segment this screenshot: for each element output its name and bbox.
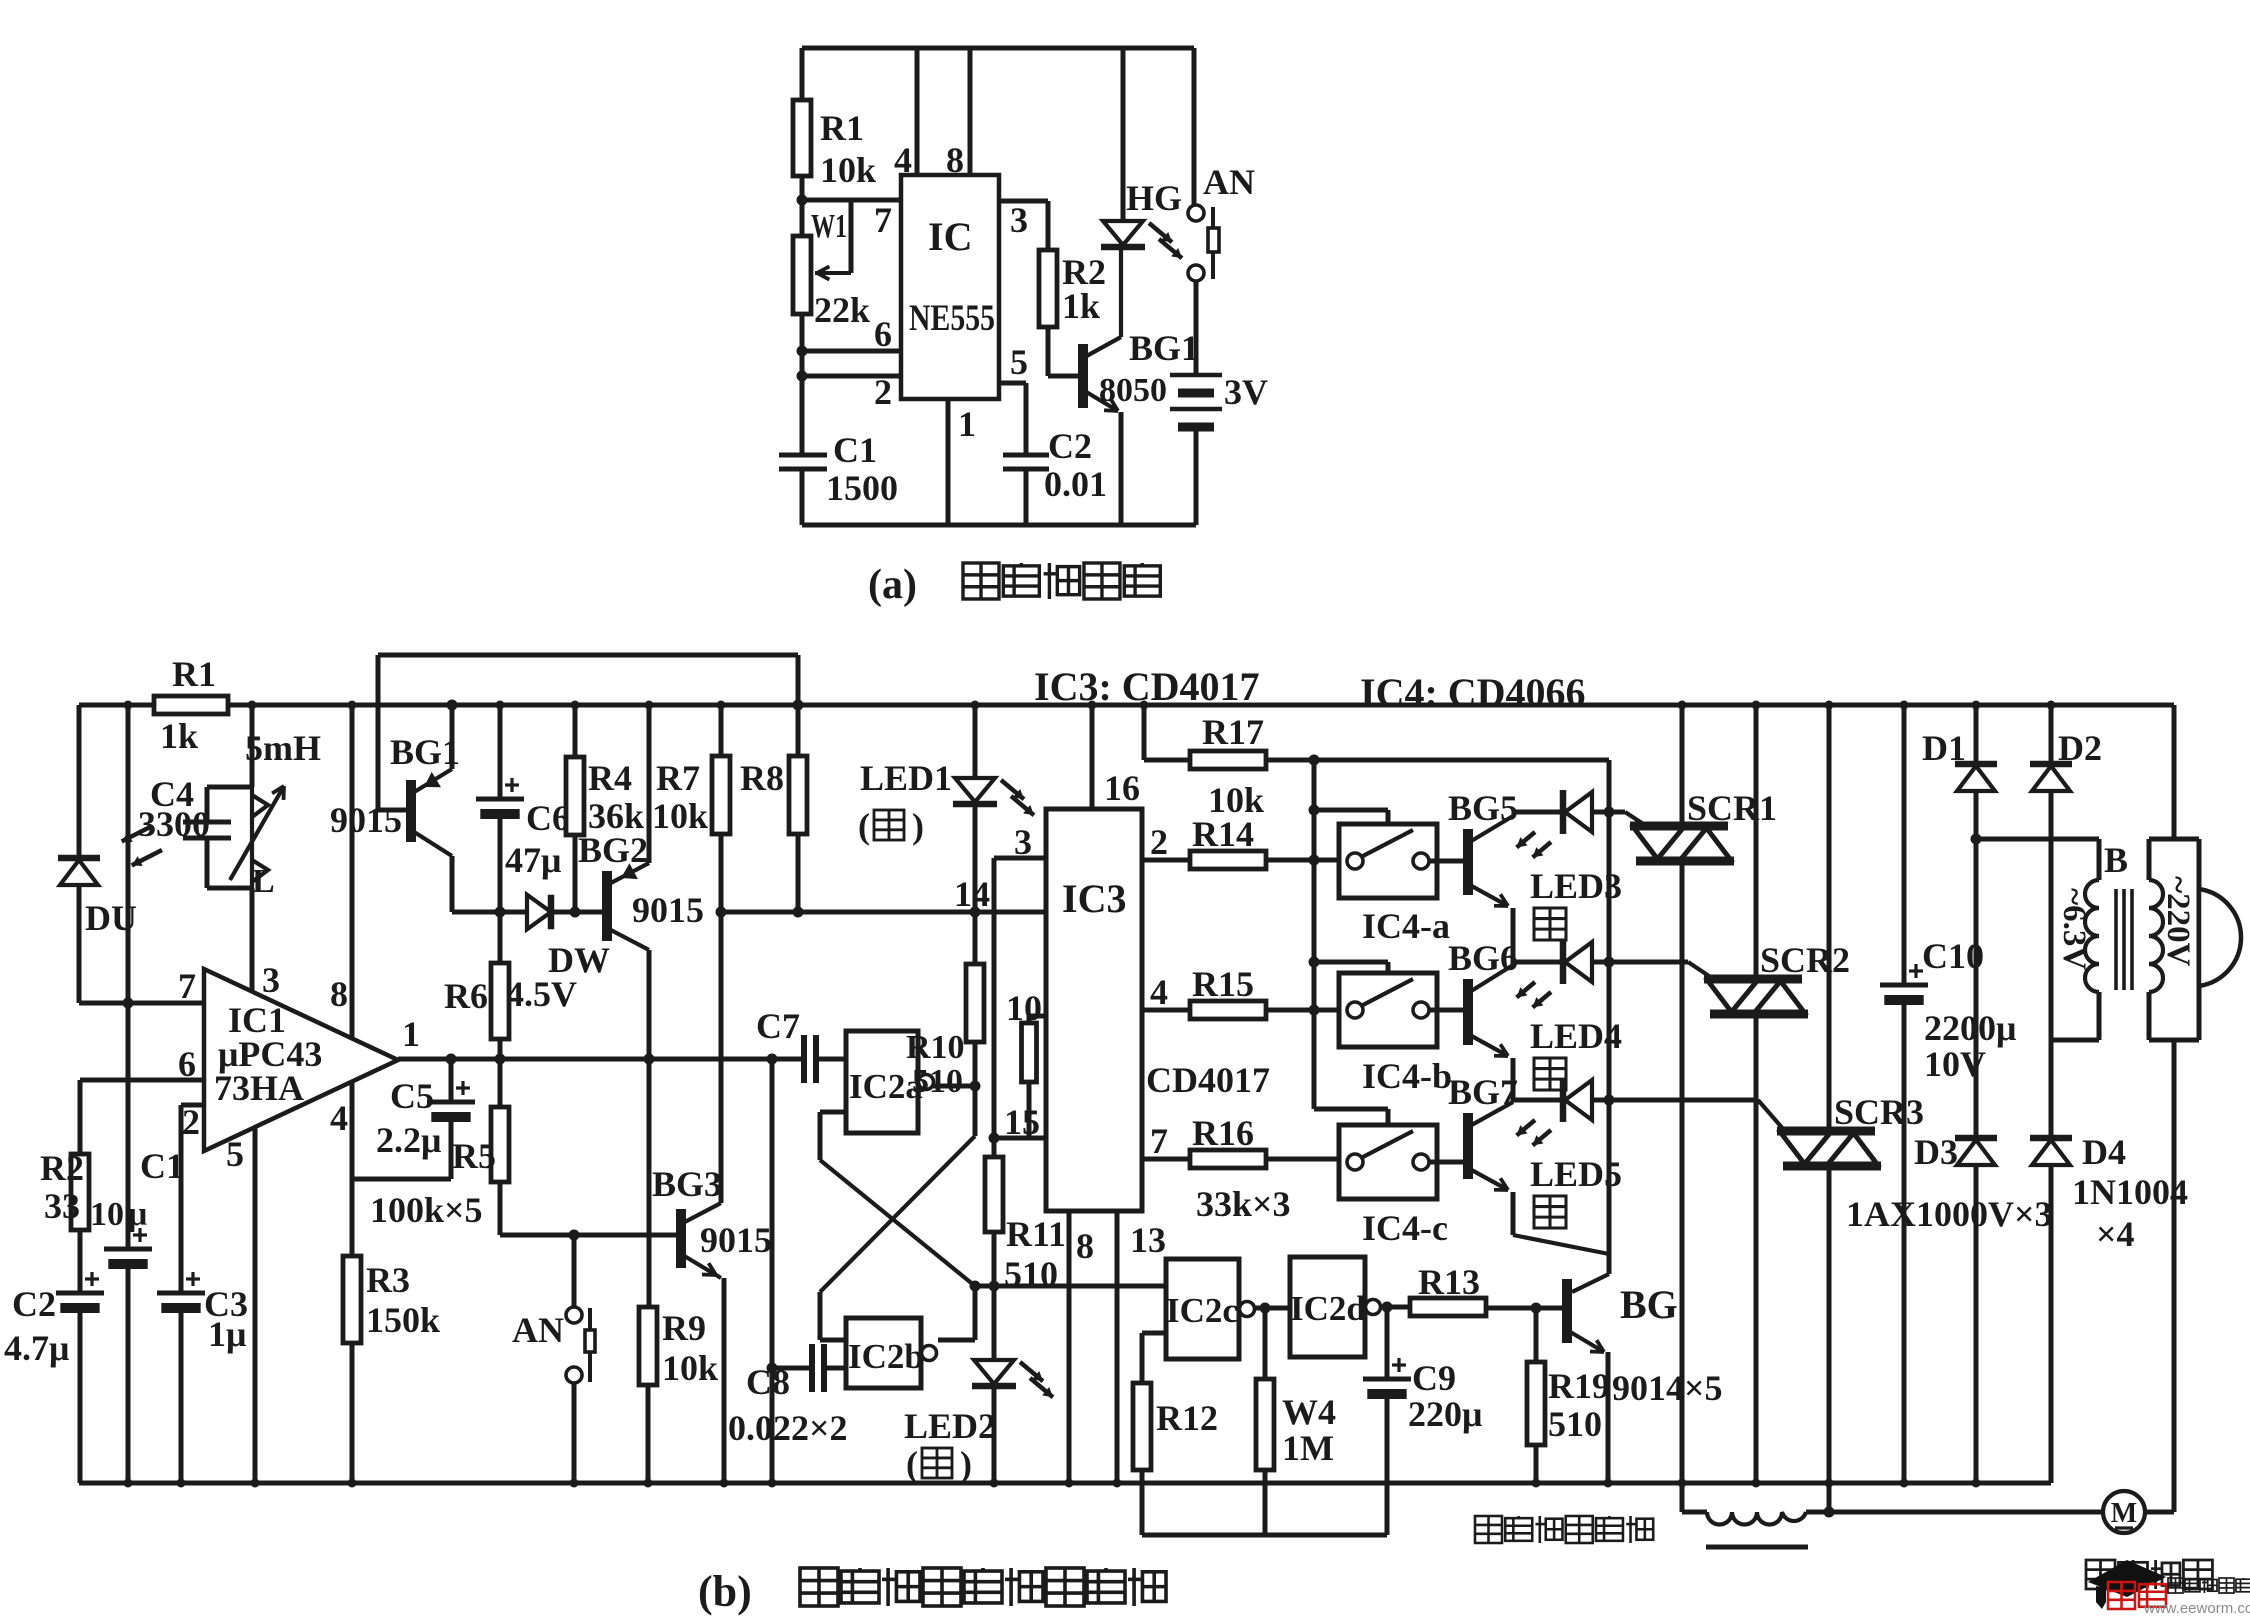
wire R14 to IC4a <box>1266 858 1339 863</box>
node junction top rail x=649 <box>645 701 654 710</box>
svg-text:AN: AN <box>512 1310 564 1350</box>
svg-text:C8: C8 <box>746 1362 790 1402</box>
transistor BG 9014 <box>1607 1256 1612 1274</box>
svg-text:7: 7 <box>874 200 892 240</box>
wire C1 to bottom rail <box>126 1264 131 1483</box>
capacitor C1 10u (b) <box>104 1247 152 1252</box>
svg-text:33: 33 <box>44 1186 80 1226</box>
wire pin14 row <box>721 910 1046 915</box>
svg-text:1AX1000V×3: 1AX1000V×3 <box>1846 1194 2053 1234</box>
wire C1 column (b) <box>126 705 131 1249</box>
svg-text:IC2d: IC2d <box>1290 1289 1366 1328</box>
node junction bottom rail x=994 <box>990 1479 999 1488</box>
wire sub rail <box>1142 1533 1387 1538</box>
resistor R10 510 <box>973 912 978 964</box>
inductor fan coil <box>1707 1512 1806 1525</box>
svg-text:NE555: NE555 <box>909 298 995 339</box>
transistor BG5 <box>1463 829 1473 895</box>
LED1 yellow <box>973 705 978 778</box>
svg-text:4.5V: 4.5V <box>506 974 577 1014</box>
node pin2 row (a) <box>802 374 901 379</box>
wire D2 down <box>2049 791 2054 1138</box>
transformer winding 6.3V <box>2097 839 2102 880</box>
capacitor C10 2200u <box>1902 705 1907 985</box>
resistor R14 <box>1190 851 1266 869</box>
wire IC2a out down <box>973 1086 978 1136</box>
wire R6 to node1 <box>498 1039 503 1059</box>
svg-text:IC3: IC3 <box>1062 876 1126 921</box>
svg-text:8: 8 <box>946 140 964 180</box>
node junction top rail x=575 <box>571 701 580 710</box>
svg-text:AN: AN <box>1203 162 1255 202</box>
node junction bottom rail x=1829 <box>1825 1479 1834 1488</box>
resistor R5 100k <box>498 1059 503 1107</box>
svg-text:(: ( <box>858 806 870 846</box>
wire feedback box right <box>796 655 801 756</box>
svg-text:4: 4 <box>894 140 912 180</box>
svg-text:1N1004: 1N1004 <box>2072 1172 2188 1212</box>
svg-text:R8: R8 <box>740 758 784 798</box>
wire R5 bottom row <box>498 1182 503 1235</box>
diode D1 <box>1974 705 1979 764</box>
svg-text:IC2c: IC2c <box>1166 1291 1238 1330</box>
wire pin5 column <box>253 1127 258 1483</box>
wire IC4b out <box>1429 1008 1464 1013</box>
wire pin8 column (b) <box>350 705 355 1040</box>
inductor L 5mH <box>250 787 254 888</box>
svg-text:10k: 10k <box>820 150 876 190</box>
svg-text:~6.3V: ~6.3V <box>2056 888 2092 970</box>
wire coil row <box>1682 1510 1707 1515</box>
node pin6 row (a) <box>802 349 901 354</box>
wire pin6 row (b) <box>80 1078 204 1083</box>
wire IC2a lower input <box>820 1110 846 1115</box>
node junction bottom rail x=1756 <box>1752 1479 1761 1488</box>
battery 3V <box>1194 281 1199 375</box>
svg-text:R2: R2 <box>40 1148 84 1188</box>
wire BG7 emitter down <box>1511 1192 1516 1235</box>
transistor BG1 8050 <box>1078 344 1088 408</box>
node junction bottom rail x=1536 <box>1532 1479 1541 1488</box>
svg-text:BG7: BG7 <box>1448 1072 1518 1112</box>
wire motor right <box>2145 1510 2174 1515</box>
svg-text:510: 510 <box>912 1063 963 1100</box>
wire bus feed c <box>1314 1107 1388 1112</box>
wire coil to motor <box>1806 1510 2103 1515</box>
wire pin8 (a) <box>968 48 973 175</box>
node junction bottom rail x=1904 <box>1900 1479 1909 1488</box>
wire left edge (a) <box>800 48 805 100</box>
transistor BG1 9015 (b) <box>378 808 407 813</box>
svg-text:2200μ: 2200μ <box>1924 1008 2016 1048</box>
wire IC2b out <box>938 1338 975 1343</box>
arrow DU receive 2 <box>132 850 162 865</box>
wire switch bus <box>1312 760 1317 1109</box>
svg-text:13: 13 <box>1130 1220 1166 1260</box>
node junction top rail x=1904 <box>1900 701 1909 710</box>
triac SCR3 <box>1827 705 1832 1129</box>
wire BG7 coll row <box>1513 1098 1563 1103</box>
wire BG1 collector row <box>452 910 500 915</box>
svg-text:IC4: CD4066: IC4: CD4066 <box>1360 670 1586 715</box>
wire C2 to rail <box>78 1308 83 1483</box>
svg-text:R6: R6 <box>444 976 488 1016</box>
wire 220V down <box>2172 1040 2177 1512</box>
label fan coil caption <box>1475 1516 1502 1543</box>
transistor BG6 <box>1463 979 1473 1045</box>
svg-text:D4: D4 <box>2082 1132 2126 1172</box>
svg-text:R19: R19 <box>1548 1366 1610 1406</box>
potentiometer W4 1M <box>1263 1308 1268 1379</box>
wire gate bus <box>1607 760 1612 1256</box>
svg-text:3: 3 <box>262 960 280 1000</box>
resistor R2 33 (b) <box>71 1154 89 1230</box>
motor M <box>2103 1491 2145 1533</box>
svg-text:IC4-a: IC4-a <box>1362 906 1450 946</box>
svg-text:4: 4 <box>330 1098 348 1138</box>
node junction bottom rail x=772 <box>768 1479 777 1488</box>
svg-text:9015: 9015 <box>700 1220 772 1260</box>
svg-text:0.022×2: 0.022×2 <box>728 1408 848 1448</box>
svg-text:R10: R10 <box>906 1029 965 1066</box>
svg-text:10k: 10k <box>662 1348 718 1388</box>
wire LED3 to SCR1 gate <box>1592 810 1625 815</box>
node junction bottom rail x=1117 <box>1113 1479 1122 1488</box>
wire R17 drop <box>1142 705 1147 760</box>
svg-text:1M: 1M <box>1282 1428 1334 1468</box>
wire bottom rail (b) <box>79 1481 2051 1486</box>
node junction bottom rail x=128 <box>124 1479 133 1488</box>
svg-text:C6: C6 <box>526 798 570 838</box>
wire pin8 IC3 <box>1067 1211 1072 1483</box>
svg-text:R5: R5 <box>452 1136 496 1176</box>
node junction top rail x=975 <box>971 701 980 710</box>
wire BG6 coll row <box>1513 960 1563 965</box>
svg-text:3300: 3300 <box>138 804 210 844</box>
wire BG5 emitter chain <box>1511 908 1516 965</box>
capacitor C9 220u <box>1385 1307 1390 1379</box>
logo cap <box>2088 1560 2166 1597</box>
wire R4 to base row <box>573 835 578 912</box>
diode D3 <box>1955 1135 1997 1142</box>
diode D2 <box>2049 705 2054 764</box>
svg-text:2: 2 <box>874 372 892 412</box>
svg-text:6: 6 <box>874 314 892 354</box>
node junction top rail x=1756 <box>1752 701 1761 710</box>
wire pin13 IC3 <box>1115 1211 1120 1483</box>
svg-text:5: 5 <box>226 1134 244 1174</box>
wire pin1 (a) <box>946 399 951 525</box>
svg-text:73HA: 73HA <box>214 1068 304 1108</box>
svg-text:1k: 1k <box>160 716 198 756</box>
svg-text:HG: HG <box>1126 178 1182 218</box>
wire IC2a out <box>933 1084 975 1089</box>
node junction bottom rail x=1976 <box>1972 1479 1981 1488</box>
svg-text:R16: R16 <box>1192 1113 1254 1153</box>
wire pin3 column (b) <box>250 888 255 996</box>
svg-text:1500: 1500 <box>826 468 898 508</box>
svg-text:R4: R4 <box>588 758 632 798</box>
svg-text:1: 1 <box>402 1014 420 1054</box>
capacitor C2 4.7u (b) <box>56 1291 104 1296</box>
svg-text:(: ( <box>906 1444 918 1484</box>
wire tank top row <box>207 785 252 790</box>
svg-text:8: 8 <box>1076 1226 1094 1266</box>
node junction top rail x=1976 <box>1972 701 1981 710</box>
node junction bottom rail x=1069 <box>1065 1479 1074 1488</box>
resistor R7 10k <box>719 705 724 756</box>
svg-text:BG5: BG5 <box>1448 788 1518 828</box>
node junction top rail x=1682 <box>1678 701 1687 710</box>
resistor R2 (a) <box>1046 201 1051 250</box>
svg-text:510: 510 <box>1548 1404 1602 1444</box>
resistor R19 510 <box>1485 1306 1565 1311</box>
analog switch IC4-c <box>1339 1125 1437 1199</box>
svg-text:22k: 22k <box>814 290 870 330</box>
wire pin4 column (b) <box>350 1082 355 1483</box>
transistor BG3 9015 <box>676 1209 686 1268</box>
svg-text:16: 16 <box>1104 768 1140 808</box>
capacitor C1 (a) <box>779 453 827 458</box>
node junction top rail x=721 <box>717 701 726 710</box>
svg-text:10: 10 <box>90 1196 124 1233</box>
transformer winding 220V <box>2149 837 2199 842</box>
photodiode DU <box>58 855 100 862</box>
switch AN (b) <box>572 1235 577 1307</box>
svg-text:9014×5: 9014×5 <box>1612 1368 1723 1408</box>
LED5 red <box>1560 1078 1567 1122</box>
capacitor C5 bottom row <box>352 1177 451 1182</box>
node junction top rail x=1092 <box>1088 701 1097 710</box>
svg-text:BG1: BG1 <box>1129 328 1199 368</box>
diode D4 <box>2030 1135 2072 1142</box>
resistor R6 <box>498 912 503 963</box>
svg-text:9015: 9015 <box>330 800 402 840</box>
transistor BG2 9015 <box>602 871 612 941</box>
svg-text:BG2: BG2 <box>578 830 648 870</box>
wire pin2 row IC3 <box>1142 858 1190 863</box>
node junction top rail x=500 <box>496 701 505 710</box>
svg-text:2: 2 <box>182 1102 200 1142</box>
wire tank bottom row <box>207 886 252 891</box>
wire pin7 row (b) <box>79 1001 204 1006</box>
svg-text:4.7μ: 4.7μ <box>4 1328 69 1368</box>
svg-text:×4: ×4 <box>2096 1214 2135 1254</box>
wire bottom rail (a) <box>802 523 1196 528</box>
wire cross couple d1 <box>820 1160 975 1286</box>
resistor R3 150k <box>343 1256 361 1343</box>
wire output drop column <box>770 1059 775 1483</box>
svg-text:B: B <box>2104 840 2128 880</box>
capacitor C6 47u <box>498 705 503 799</box>
node junction top rail x=1144 <box>1140 701 1149 710</box>
resistor R13 <box>1410 1298 1486 1316</box>
svg-text:D2: D2 <box>2058 728 2102 768</box>
svg-text:LED1: LED1 <box>860 758 952 798</box>
wire pin2 stub <box>181 1103 204 1108</box>
wire pin4 row IC3 <box>1142 1008 1190 1013</box>
svg-text:R3: R3 <box>366 1260 410 1300</box>
LED4 red <box>1560 940 1567 984</box>
LED3 red <box>1560 790 1567 834</box>
wire R15 to IC4b <box>1266 1008 1339 1013</box>
wire pin1 row (b) <box>398 1057 805 1062</box>
wire DU to pin7 row <box>77 885 82 1003</box>
node junction bottom rail x=1608 <box>1604 1479 1613 1488</box>
svg-text:BG: BG <box>1620 1282 1678 1327</box>
svg-text:R14: R14 <box>1192 814 1254 854</box>
transistor BG7 <box>1463 1113 1473 1179</box>
wire top rail (b) left <box>79 703 154 708</box>
svg-text:1μ: 1μ <box>208 1314 246 1354</box>
wire IC2d out <box>1379 1305 1410 1310</box>
svg-text:5mH: 5mH <box>245 728 321 768</box>
svg-text:10k: 10k <box>652 796 708 836</box>
op-amp IC1 uPC4373HA <box>204 969 398 1151</box>
capacitor C4 3300 <box>205 787 210 822</box>
wire green row <box>975 1284 1166 1289</box>
arrow DU receive 1 <box>122 826 152 841</box>
node junction bottom rail x=648 <box>644 1479 653 1488</box>
resistor R11 510 <box>985 1157 1003 1232</box>
LED HG <box>1121 48 1126 221</box>
zener DW 4.5V <box>500 910 527 915</box>
nand gate IC2c <box>1166 1259 1239 1359</box>
wire cross couple d2 <box>820 1136 975 1292</box>
svg-text:(b): (b) <box>698 1567 752 1616</box>
svg-text:R1: R1 <box>172 654 216 694</box>
svg-text:R11: R11 <box>1006 1214 1066 1254</box>
wire R17 row <box>1266 758 1609 763</box>
node junction bottom rail x=352 <box>348 1479 357 1488</box>
resistor R12 <box>1142 1331 1166 1336</box>
svg-text:8: 8 <box>330 974 348 1014</box>
svg-text:C2: C2 <box>12 1284 56 1324</box>
node junction bottom rail x=181 <box>177 1479 186 1488</box>
label fan motor caption <box>2086 1560 2115 1589</box>
wire R2 to BG1 base <box>1046 327 1051 376</box>
analog switch IC4-b <box>1339 973 1437 1047</box>
wire R1 to W1 <box>800 176 805 236</box>
svg-text:BG3: BG3 <box>652 1164 722 1204</box>
wire IC4c out <box>1429 1160 1464 1165</box>
svg-text:2.2μ: 2.2μ <box>376 1120 441 1160</box>
svg-text:~220V: ~220V <box>2160 876 2196 967</box>
resistor R16 <box>1190 1150 1266 1168</box>
node junction top rail x=352 <box>348 701 357 710</box>
wire feedback box top <box>378 653 798 658</box>
resistor R4 36k <box>573 705 578 757</box>
nand gate IC2b <box>846 1318 921 1388</box>
svg-text:C7: C7 <box>756 1006 800 1046</box>
node junction top rail x=252 <box>248 701 257 710</box>
resistor pin10 <box>1029 1014 1046 1019</box>
wire pin3 row (a) <box>999 199 1048 204</box>
wire bus feed a <box>1314 808 1388 813</box>
svg-text:7: 7 <box>178 966 196 1006</box>
svg-text:SCR2: SCR2 <box>1760 940 1850 980</box>
svg-text:9015: 9015 <box>632 890 704 930</box>
node junction bottom rail x=724 <box>720 1479 729 1488</box>
wire R11 column <box>992 858 997 1157</box>
node junction top rail x=1829 <box>1825 701 1834 710</box>
wire IC4a out <box>1429 859 1464 864</box>
svg-text:): ) <box>912 806 924 846</box>
svg-text:3: 3 <box>1014 822 1032 862</box>
svg-text:R1: R1 <box>820 108 864 148</box>
wire pin16 <box>1090 705 1095 809</box>
svg-text:CD4017: CD4017 <box>1146 1060 1270 1100</box>
wire top rail of transmitter <box>802 46 1194 51</box>
svg-text:C2: C2 <box>1048 426 1092 466</box>
wire pin5 row (a) <box>999 381 1026 386</box>
svg-text:BG6: BG6 <box>1448 938 1518 978</box>
wire DU column top <box>77 705 82 858</box>
svg-text:150k: 150k <box>366 1300 440 1340</box>
wire R16 to IC4c <box>1266 1157 1339 1162</box>
node junction top rail x=128 <box>124 701 133 710</box>
wire IC2c out <box>1254 1306 1290 1311</box>
svg-text:33k×3: 33k×3 <box>1196 1184 1291 1224</box>
svg-text:IC4-b: IC4-b <box>1362 1056 1452 1096</box>
svg-text:4: 4 <box>1150 972 1168 1012</box>
svg-text:100k×5: 100k×5 <box>370 1190 483 1230</box>
svg-text:8050: 8050 <box>1099 372 1167 409</box>
svg-text:47μ: 47μ <box>505 840 561 880</box>
wire D1 down <box>1974 791 1979 1138</box>
svg-text:2: 2 <box>1150 822 1168 862</box>
resistor R1 (a) <box>793 100 811 176</box>
svg-text:C9: C9 <box>1412 1358 1456 1398</box>
svg-text:SCR3: SCR3 <box>1834 1092 1924 1132</box>
wire feedback box left <box>376 655 381 810</box>
svg-text:(a): (a) <box>868 562 917 608</box>
wire C3 to rail <box>179 1308 184 1483</box>
triac SCR2 <box>1754 705 1759 977</box>
svg-text:D3: D3 <box>1914 1132 1958 1172</box>
wire C1 to bottom rail <box>800 469 805 525</box>
svg-text:R9: R9 <box>662 1308 706 1348</box>
wire R11 to LED2 <box>992 1232 997 1360</box>
node junction top rail x=2051 <box>2047 701 2056 710</box>
svg-text:10: 10 <box>1006 988 1042 1028</box>
svg-text:www.eeworm.com: www.eeworm.com <box>2143 1600 2250 1617</box>
resistor R1 1k (b) <box>154 696 228 714</box>
resistor R8 <box>796 705 801 756</box>
svg-text:R15: R15 <box>1192 964 1254 1004</box>
nand gate IC2d <box>1290 1257 1365 1357</box>
capacitor C5 2.2u <box>449 1059 454 1102</box>
wire top rail (b) main <box>228 703 2174 708</box>
svg-text:R12: R12 <box>1156 1398 1218 1438</box>
wire BG5 coll row <box>1513 810 1563 815</box>
svg-text:7: 7 <box>1150 1121 1168 1161</box>
svg-text:C1: C1 <box>140 1146 184 1186</box>
wire BG6 emitter chain <box>1511 1058 1516 1102</box>
svg-text:3V: 3V <box>1224 372 1268 412</box>
svg-text:D1: D1 <box>1922 728 1966 768</box>
svg-text:220μ: 220μ <box>1408 1394 1482 1434</box>
svg-text:IC2b: IC2b <box>848 1337 924 1376</box>
svg-text:0.01: 0.01 <box>1044 464 1107 504</box>
switch AN (a) <box>1192 48 1197 205</box>
wire D3 down <box>1974 1165 1979 1483</box>
wire BG2 col to R9 <box>647 1059 652 1307</box>
capacitor C7 <box>801 1035 807 1083</box>
wire LED1 down <box>973 803 978 912</box>
svg-text:1k: 1k <box>1062 286 1100 326</box>
wire W1 to C1 <box>800 314 805 455</box>
